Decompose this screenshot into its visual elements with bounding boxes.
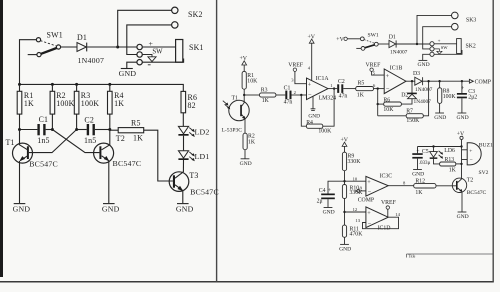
resistor R5 1K (110, 118, 173, 181)
switch SW1 (right) (356, 33, 379, 51)
ground GND below C4 (323, 208, 335, 216)
bottom border (0, 281, 494, 283)
power VREF for IC1B pin5 (366, 62, 385, 75)
svg-text:14: 14 (395, 212, 400, 217)
ground stub IC1A pin11 (308, 96, 320, 120)
LED LD2 (178, 126, 209, 150)
transistor T2 BC547C (94, 130, 142, 204)
resistor R6 10K feedback (377, 89, 402, 116)
svg-text:+: + (438, 39, 441, 45)
node buzzer rail junction (460, 145, 462, 147)
diode D2 1N4007 vertical (401, 81, 431, 105)
svg-text:2μ2: 2μ2 (468, 95, 477, 101)
node coupling junctions (18, 128, 21, 131)
svg-text:1N4007: 1N4007 (415, 87, 433, 93)
resistor R3 100K (74, 84, 99, 129)
svg-text:100K: 100K (443, 94, 457, 100)
svg-text:Title: Title (408, 254, 415, 258)
svg-text:330K: 330K (348, 159, 362, 165)
svg-text:1n5: 1n5 (84, 136, 96, 145)
op-amp IC1D (366, 207, 391, 232)
svg-text:SW: SW (152, 49, 163, 56)
resistor R12 1K (414, 178, 456, 196)
op-amp IC1B (384, 66, 406, 94)
wire junction up to SK2 pin1 (118, 10, 172, 47)
svg-text:GND: GND (308, 114, 320, 120)
resistor R2 100K (50, 84, 75, 129)
wire top supply rail (20, 84, 184, 91)
svg-text:IC1A: IC1A (316, 76, 330, 82)
svg-text:1K: 1K (248, 139, 256, 145)
wire IC3C output pin8 (388, 185, 414, 187)
svg-text:10K: 10K (247, 79, 258, 85)
svg-text:D1: D1 (389, 35, 396, 41)
svg-text:D1: D1 (77, 33, 87, 42)
svg-text:IC1B: IC1B (390, 66, 403, 72)
svg-text:100K: 100K (318, 128, 332, 134)
LED LD1 (178, 151, 209, 172)
node divider tap B (pin12) (343, 211, 345, 213)
svg-text:R12: R12 (415, 178, 425, 184)
wire COMP line (438, 80, 470, 82)
svg-text:1N4007: 1N4007 (390, 49, 408, 55)
wire SK3 pin2 to SK2 middle (423, 27, 452, 49)
svg-text:+V: +V (336, 37, 344, 43)
wire IC1A output (328, 88, 337, 90)
node R7/COMP junction (427, 80, 429, 82)
capacitor C1 47n (284, 85, 307, 105)
wire rail to C5/LED (418, 146, 462, 148)
wire tap A to IC3C + input (345, 180, 366, 182)
connector SK2 (right) (430, 39, 476, 57)
resistor R6 82 (181, 91, 197, 126)
svg-text:R3: R3 (261, 88, 268, 94)
svg-text:SW1: SW1 (368, 33, 379, 39)
resistor R2 1K (photo emitter) (243, 133, 256, 158)
ground GND below R8 (434, 113, 446, 121)
resistor R1 10K (242, 71, 258, 95)
svg-text:C2: C2 (84, 116, 94, 125)
svg-text:1K: 1K (24, 99, 34, 108)
svg-text:1K: 1K (357, 93, 365, 99)
svg-text:10K: 10K (383, 107, 394, 113)
svg-text:BC547C: BC547C (467, 190, 487, 196)
svg-text:+: + (367, 210, 371, 217)
ground GND below T2 (457, 212, 469, 220)
diode D1 1N4007 (61, 33, 137, 65)
svg-text:T3: T3 (189, 171, 198, 180)
svg-text:LM324: LM324 (319, 96, 336, 102)
svg-text:GND: GND (457, 214, 469, 220)
svg-text:.033μ: .033μ (419, 160, 431, 166)
svg-text:−: − (386, 86, 390, 93)
capacitor C3 2u2 (457, 80, 477, 113)
svg-text:IC3C: IC3C (380, 173, 393, 179)
svg-text:T2: T2 (116, 134, 125, 143)
svg-text:12: 12 (353, 207, 358, 212)
svg-text:C1: C1 (39, 115, 49, 124)
ground GND below R11 (339, 244, 351, 252)
svg-text:+: + (367, 179, 371, 186)
svg-text:LD2: LD2 (195, 128, 210, 137)
node COMP flag into IC3C pin9 (355, 189, 374, 203)
node D1/SK3 junction (416, 43, 418, 45)
svg-text:47n: 47n (339, 93, 348, 99)
svg-text:R5: R5 (131, 118, 141, 127)
svg-text:BUZ1: BUZ1 (479, 143, 493, 149)
svg-text:+: + (416, 149, 419, 155)
svg-text:GND: GND (434, 115, 446, 121)
svg-text:VREF: VREF (381, 200, 397, 206)
svg-text:GND: GND (412, 172, 424, 178)
svg-text:82: 82 (188, 101, 196, 110)
svg-text:−: − (368, 189, 372, 196)
svg-text:C2: C2 (338, 79, 345, 85)
power +V for R9 (341, 138, 349, 153)
svg-text:T2: T2 (467, 177, 474, 183)
svg-text:1n5: 1n5 (37, 136, 49, 145)
op-amp IC3C (366, 173, 392, 196)
ground GND of SK1 (119, 62, 137, 78)
svg-text:BC547C: BC547C (190, 187, 219, 196)
LED LD6 (430, 147, 455, 164)
svg-text:SW: SW (441, 45, 449, 50)
svg-text:GND: GND (176, 205, 194, 214)
svg-text:+: + (149, 39, 154, 48)
svg-text:C1: C1 (284, 85, 291, 91)
power +V for buzzer (457, 131, 465, 179)
power +V for IC1A pin4 (308, 34, 316, 80)
wire IC1B output (406, 80, 415, 82)
svg-text:BC547C: BC547C (29, 160, 58, 169)
resistor R4 1K (108, 84, 125, 129)
svg-text:R5: R5 (358, 81, 365, 87)
svg-text:VREF: VREF (366, 62, 382, 68)
svg-text:150K: 150K (406, 118, 420, 124)
buzzer BUZ1 (462, 143, 493, 177)
title block line (407, 254, 493, 258)
svg-text:L-53P3C: L-53P3C (222, 127, 243, 133)
svg-text:GND: GND (418, 62, 430, 68)
transistor T3 BC547C (169, 171, 219, 203)
node IC1A output junction (333, 87, 335, 89)
svg-text:BC547C: BC547C (113, 159, 142, 168)
svg-text:D2: D2 (401, 93, 408, 99)
node IC1B inverting junction (377, 87, 379, 89)
svg-text:470K: 470K (350, 232, 364, 238)
wire SK2 pin2 to SK1 middle (127, 25, 172, 55)
svg-text:COMP: COMP (475, 80, 491, 86)
switch SW1 (28, 30, 63, 56)
svg-text:VREF: VREF (288, 62, 304, 68)
svg-text:T1: T1 (232, 96, 239, 102)
svg-text:LD1: LD1 (195, 152, 210, 161)
svg-text:SK2: SK2 (466, 43, 476, 49)
svg-text:GND: GND (102, 205, 120, 214)
capacitor C1 1n5 (20, 115, 53, 145)
svg-text:D3: D3 (413, 71, 420, 77)
capacitor C4 2u (317, 181, 345, 207)
svg-text:C4: C4 (319, 188, 326, 194)
panel separator (216, 0, 218, 282)
svg-text:SV2: SV2 (479, 170, 489, 176)
connector SK2 (172, 7, 203, 28)
svg-text:+: + (461, 86, 464, 92)
ground GND T2 (102, 204, 120, 214)
svg-text:2μ: 2μ (317, 199, 323, 205)
node divider tap A (pin10) (343, 180, 345, 182)
power VREF for IC1A pin3 (288, 62, 306, 83)
node IC1A inverting junction (300, 94, 302, 96)
transistor T2 BC547C (right) (452, 177, 486, 212)
svg-text:SK1: SK1 (189, 43, 204, 52)
svg-text:GND: GND (13, 205, 31, 214)
svg-text:R7: R7 (406, 108, 413, 114)
svg-text:13: 13 (355, 218, 360, 223)
connector SK1 (137, 39, 204, 65)
transistor T1 L-53P3C phototransistor (222, 95, 250, 133)
capacitor C2 1n5 (77, 116, 110, 146)
wire cross-couple R2 to T2 base (52, 130, 99, 153)
svg-text:GND: GND (240, 161, 252, 167)
svg-text:+: + (386, 73, 390, 80)
node junction at D1/SK2 (116, 46, 119, 49)
capacitor C2 47n (337, 79, 356, 99)
ground GND below R2 (240, 159, 252, 167)
svg-text:SK2: SK2 (188, 10, 203, 19)
svg-text:T1: T1 (6, 138, 15, 147)
svg-text:1K: 1K (415, 190, 423, 196)
svg-text:10: 10 (353, 176, 358, 181)
resistor R1 1K (17, 84, 34, 129)
svg-text:SW1: SW1 (47, 30, 63, 39)
svg-text:SK3: SK3 (466, 18, 476, 24)
svg-text:47n: 47n (284, 100, 293, 106)
ground GND T3 (176, 204, 194, 214)
svg-text:R13: R13 (445, 157, 455, 163)
svg-text:−: − (470, 158, 473, 164)
wire SW1 throw1 to left rail (20, 40, 37, 85)
node D2 tap junction (411, 80, 413, 82)
svg-text:+: + (308, 82, 312, 89)
svg-text:−: − (368, 220, 372, 227)
svg-text:+: + (469, 149, 472, 155)
wire IC1D output pin14 + feedback loop (355, 212, 400, 229)
resistor R4 100K feedback (301, 89, 334, 135)
right border (492, 0, 494, 282)
resistor R11 470K (342, 225, 363, 244)
power VREF at IC1D output (381, 200, 397, 217)
node COMP flag (469, 79, 491, 85)
ground GND T1 (13, 204, 31, 214)
resistor R5 1K (356, 81, 385, 99)
svg-text:C5: C5 (422, 149, 429, 155)
svg-text:GND: GND (457, 115, 469, 121)
svg-text:−: − (308, 92, 312, 99)
left page edge bar (0, 0, 3, 277)
resistor R8 100K (438, 80, 457, 113)
ground GND below C5 (412, 170, 424, 178)
svg-text:GND: GND (339, 247, 351, 253)
ground GND of SK2 (418, 54, 430, 68)
connector SK3 (417, 12, 476, 44)
svg-text:LD6: LD6 (444, 148, 455, 154)
ground GND below C3 (457, 113, 469, 121)
capacitor C5 .033u (412, 147, 430, 170)
power +V for R1 (240, 56, 248, 71)
svg-text:1K: 1K (449, 168, 457, 174)
svg-text:+: + (328, 188, 331, 194)
svg-text:COMP: COMP (358, 197, 374, 203)
svg-text:1K: 1K (114, 99, 124, 108)
resistor R9 330K (342, 152, 361, 184)
svg-text:100K: 100K (56, 99, 74, 108)
resistor R3 1K (244, 88, 285, 104)
svg-text:1K: 1K (262, 98, 270, 104)
svg-text:100K: 100K (81, 99, 99, 108)
node rail junctions (18, 83, 21, 86)
svg-text:R6: R6 (383, 97, 390, 103)
power +V feed for switch (336, 37, 360, 43)
resistor R10 330K (342, 185, 363, 226)
wire cross-couple R3 to T1 base (29, 130, 77, 153)
diode D1 1N4007 (right) (378, 35, 430, 56)
svg-text:GND: GND (119, 69, 137, 78)
resistor R7 150K feedback (378, 81, 429, 124)
svg-text:R4: R4 (306, 120, 313, 126)
resistor R13 1K (440, 157, 463, 174)
op-amp IC1A LM324 (307, 76, 337, 102)
wire tap B to IC1D + input (345, 211, 366, 213)
node R1/T1/R3 junction (243, 94, 245, 96)
svg-text:GND: GND (323, 210, 335, 216)
transistor T1 BC547C (6, 130, 58, 204)
svg-text:1N4007: 1N4007 (78, 56, 105, 65)
diode D3 1N4007 (413, 71, 438, 93)
svg-text:1K: 1K (133, 134, 143, 143)
